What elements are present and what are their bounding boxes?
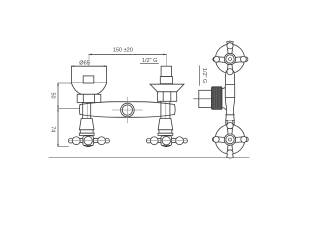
top unit horizontal centerline — [212, 58, 248, 60]
left handle hub — [83, 136, 94, 146]
centerline left leg axis — [86, 96, 88, 147]
left valve bonnet flare — [79, 119, 94, 130]
centerline right leg axis — [165, 96, 167, 147]
hex nut left inlet — [77, 94, 101, 102]
right handle left stem — [156, 138, 161, 142]
right handle right ball — [176, 137, 184, 145]
top cross handle left stem — [218, 57, 225, 63]
top cross handle right ball — [246, 57, 248, 62]
top cross handle left ball — [213, 57, 215, 62]
bottom unit right stem — [235, 137, 242, 143]
svg-text:1/2" G: 1/2" G — [142, 58, 158, 64]
central boss outer ring — [121, 103, 135, 117]
left handle shadow arc — [85, 145, 92, 148]
extension line body axis — [58, 108, 80, 110]
extension line 74 bottom — [58, 146, 69, 148]
right valve step — [158, 133, 173, 135]
bottom unit bottom ball — [227, 150, 233, 156]
extension line 50 top — [58, 82, 71, 84]
nipple right inlet lower — [160, 77, 172, 84]
right handle left ball — [150, 137, 158, 145]
flange plate right inlet — [150, 84, 184, 92]
central boss inner circle — [122, 105, 132, 115]
bottom unit bottom stem — [228, 144, 233, 150]
top cross handle top ball — [227, 41, 234, 44]
bottom unit top ball — [227, 123, 233, 129]
centerline left inlet axis — [88, 54, 90, 96]
right handle hub — [161, 136, 172, 146]
wall fitting white block — [199, 90, 212, 107]
baseline wall line — [49, 157, 249, 159]
left handle right stem — [94, 138, 100, 142]
bottom unit left stem — [218, 137, 225, 143]
left handle left stem — [78, 138, 83, 142]
dim Ø65 arrows — [71, 65, 74, 67]
svg-text:1/2" G: 1/2" G — [201, 68, 207, 83]
pipe left leg — [82, 103, 84, 119]
top hub — [224, 53, 235, 64]
svg-text:50: 50 — [49, 93, 55, 99]
top escutcheon circle — [215, 44, 244, 73]
top cross handle bottom stem — [228, 64, 233, 70]
pipe right leg — [160, 101, 162, 118]
right valve bonnet flare — [158, 119, 173, 130]
bottom unit right ball — [246, 137, 248, 142]
svg-text:Ø65: Ø65 — [79, 61, 90, 67]
label 1/2 G front view underline — [140, 63, 158, 65]
right handle right bead — [183, 138, 188, 143]
right handle centerline — [146, 140, 187, 142]
svg-text:150 ±20: 150 ±20 — [113, 48, 133, 54]
left handle centerline — [68, 140, 109, 142]
top cross handle top stem — [228, 48, 233, 54]
nipple right inlet upper — [161, 66, 172, 76]
right handle left bead — [146, 138, 151, 143]
bottom unit left ball — [212, 137, 214, 142]
dim line 150 — [89, 53, 166, 55]
left handle right ball — [98, 137, 106, 145]
top cross handle right stem — [235, 57, 242, 63]
right handle shadow arc — [163, 145, 170, 148]
left handle right bead — [105, 138, 110, 143]
body tube right end — [174, 105, 177, 115]
body tube front view bottom edge — [80, 115, 175, 118]
hex nut right inlet — [157, 92, 176, 102]
side body tube — [225, 71, 234, 125]
vertical dim line 50/74 — [57, 83, 59, 147]
nipple left inlet — [83, 76, 94, 83]
top cross handle bottom ball — [227, 69, 233, 75]
bottom hub — [224, 134, 235, 145]
bottom unit horizontal centerline — [212, 139, 248, 141]
left handle left ball — [72, 137, 80, 145]
centerline right inlet axis — [165, 54, 167, 96]
bottom unit top bonnet — [227, 121, 233, 124]
body tube left end — [78, 105, 81, 115]
fitting centerline — [194, 98, 214, 100]
bottom unit top stem — [228, 129, 233, 135]
left handle left bead — [68, 138, 73, 143]
bottom escutcheon circle — [215, 125, 245, 155]
body tube front view top edge — [80, 102, 175, 105]
left valve collar — [80, 130, 93, 133]
label 1/2 G side view underline — [199, 66, 201, 86]
side view vertical centerline — [229, 40, 231, 159]
left valve step — [79, 133, 94, 135]
right valve collar — [159, 130, 172, 133]
fitting to tube connectors — [222, 87, 225, 89]
right handle right stem — [172, 138, 178, 142]
wall fitting knurled nut dark — [212, 87, 223, 110]
boss crosshair — [112, 109, 142, 111]
bell escutcheon left inlet — [71, 66, 106, 83]
svg-text:74: 74 — [50, 126, 56, 132]
